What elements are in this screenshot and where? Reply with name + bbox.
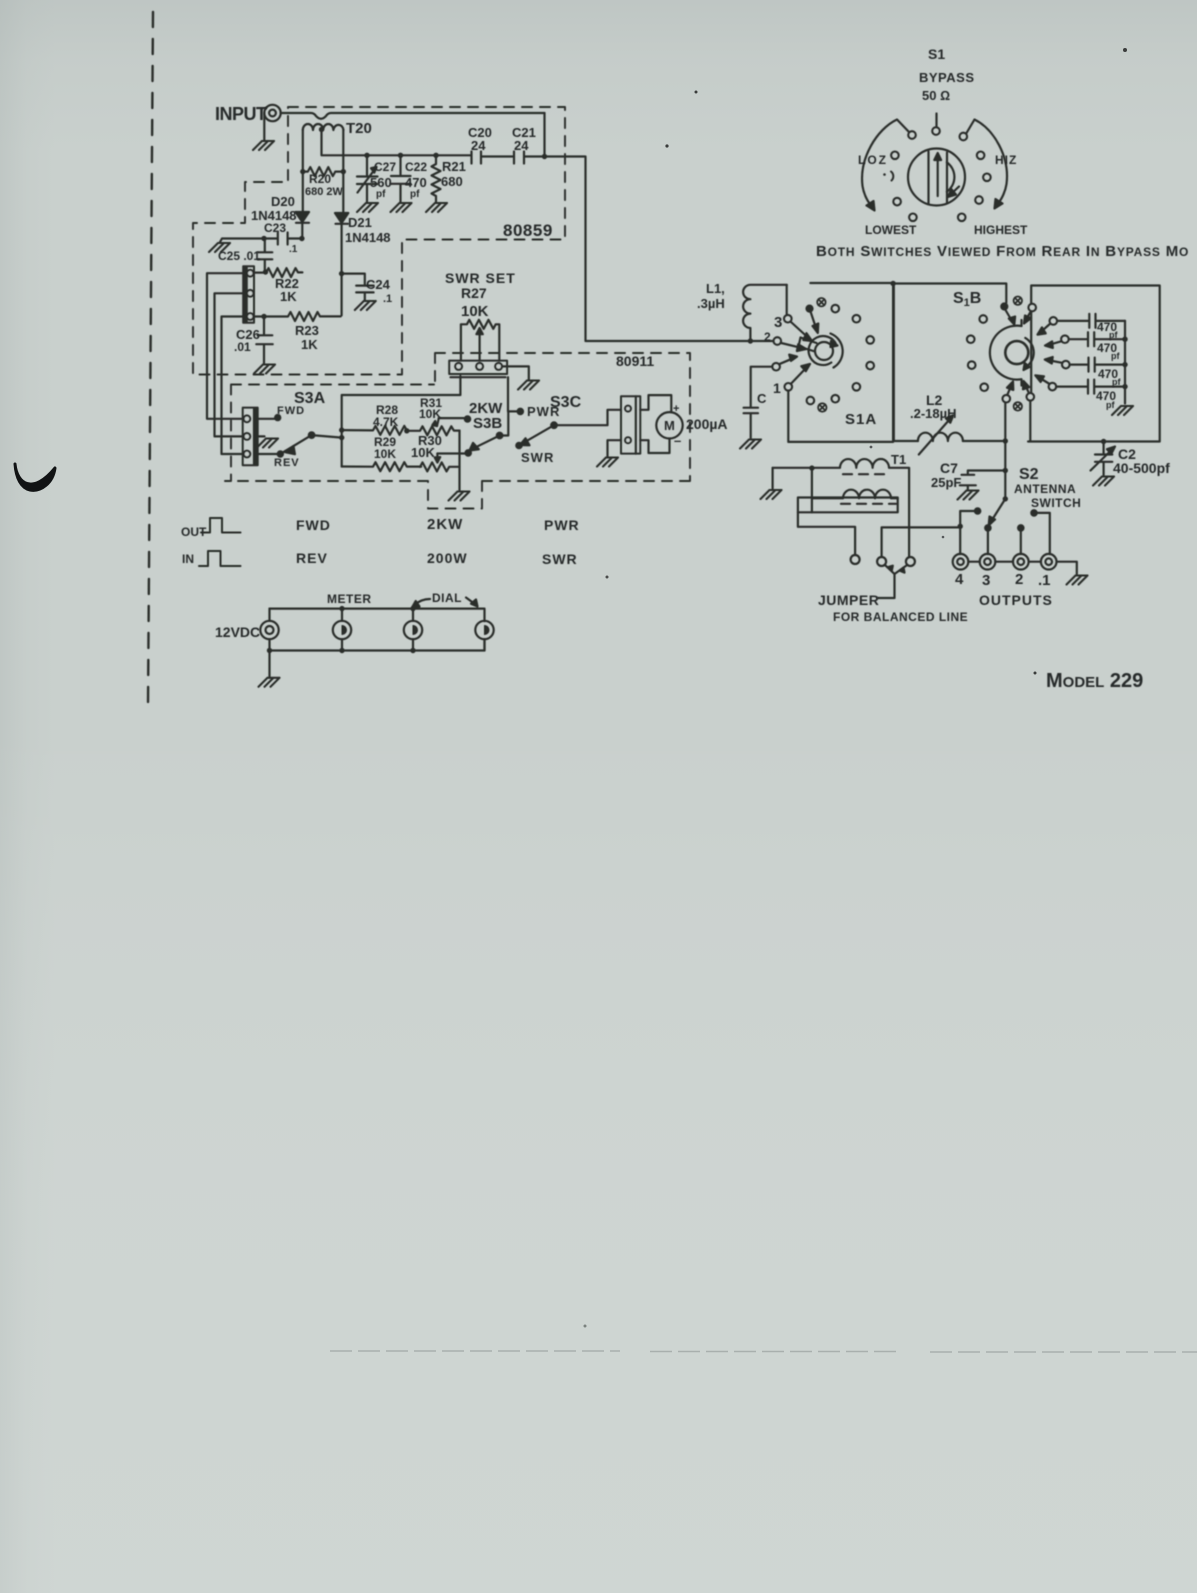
margin dashed line [148,12,153,705]
svg-text:40-500pf: 40-500pf [1113,460,1170,476]
svg-text:SWR: SWR [542,551,578,567]
svg-text:FWD: FWD [296,517,331,533]
S1 rotation arc left [862,120,908,207]
svg-text:HIGHEST: HIGHEST [974,223,1028,237]
waveform IN pulse [199,551,241,566]
DIAL pointer arrows [415,599,431,605]
S1B wiper arrows [1006,310,1012,321]
transformer T1 primary [773,459,910,557]
diode D21 [335,213,348,315]
resistor R28 [342,426,408,435]
switch S3B wiper [497,433,503,439]
svg-text:C24: C24 [366,277,391,292]
capacitor C21 [514,152,545,164]
svg-text:METER: METER [327,592,372,606]
svg-text:.3µH: .3µH [697,296,725,311]
svg-text:50 Ω: 50 Ω [922,88,950,103]
board 80859 dashed outline [193,107,565,375]
svg-text:1K: 1K [280,289,297,304]
svg-text:PWR: PWR [544,517,580,533]
capacitor C22 [391,155,411,202]
svg-text:R20: R20 [309,172,331,186]
svg-text:pf: pf [1112,377,1121,387]
node REV [258,453,281,455]
svg-text:MODEL 229: MODEL 229 [1046,670,1143,692]
svg-text:INPUT: INPUT [215,104,267,124]
box S1A [788,283,893,442]
capacitor C20 [472,152,515,164]
svg-text:+: + [673,403,679,415]
svg-text:BOTH SWITCHES VIEWED FROM REAR: BOTH SWITCHES VIEWED FROM REAR IN BYPASS… [816,243,1189,260]
capacitor C27 [357,155,378,202]
svg-text:200µA: 200µA [686,416,728,432]
meter M [656,412,682,438]
ground (input connector) [263,113,265,140]
svg-text:S1: S1 [928,46,945,62]
capacitor C23 [264,233,302,245]
wire output 1 to ground [1057,562,1077,574]
svg-text:.1: .1 [1038,572,1051,589]
potentiometer R27 [461,320,499,361]
svg-text:OUT: OUT [181,525,207,539]
connector J INPUT [264,105,280,121]
wire bracket to PWR contact [508,377,520,411]
svg-text:pf: pf [410,189,420,200]
wire T20 left winding down [302,130,304,212]
svg-text:4.7K: 4.7K [373,415,399,429]
lamp 1 METER [333,609,351,651]
svg-text:1: 1 [773,380,781,396]
svg-text:C7: C7 [940,460,958,476]
svg-text:10K: 10K [374,447,396,461]
S1A wiper wedge [799,338,817,352]
capacitor C2 [1095,442,1112,476]
12VDC bottom wire [270,639,485,650]
capacitor 470pf #2 [1069,332,1125,346]
wire R27 pin3 to ground [502,366,529,379]
S3 dashed box [231,385,434,482]
switch S3A wiper [280,435,311,454]
transformer T20 [303,124,344,130]
svg-text:80911: 80911 [616,353,654,369]
svg-text:S2: S2 [1019,466,1039,483]
resistor R30 (pot) [420,462,460,471]
svg-text:S3B: S3B [473,415,502,432]
svg-text:2KW: 2KW [427,516,463,533]
meter connector bracket [621,396,640,453]
svg-text:SWR: SWR [521,450,554,465]
svg-text:2: 2 [764,330,771,344]
resistor R29 [342,462,421,471]
svg-text:24: 24 [471,138,486,153]
wire pin1 to S3A [207,273,243,419]
resistor R20 [303,167,341,176]
svg-text:R23: R23 [295,323,319,338]
wire input to top rail [281,113,545,119]
waveform OUT pulse [201,518,241,533]
S1A rotor [809,334,843,368]
switch S3C wiper [516,443,521,448]
capacitor C26 [256,317,272,364]
resistor R31 (pot) [407,426,460,435]
wire bus left resistors [341,438,343,467]
switch S2 wiper [991,499,1005,522]
svg-text:LOZ: LOZ [858,153,888,167]
wire pin2 to S3A [215,293,244,436]
wire S3A wiper to R27 [342,376,461,438]
node FWD [258,418,278,420]
svg-text:R27: R27 [461,285,487,301]
svg-text:R21: R21 [442,159,466,174]
node 1 contact [785,383,793,391]
wire T20 right winding down [342,130,344,213]
S1B contacts [1001,304,1007,310]
S1A wiper arrows [791,322,809,338]
S1 contacts ring [908,131,916,139]
R27 connector bracket [449,361,507,378]
svg-text:25pF: 25pF [931,475,961,490]
resistor R21 [432,155,441,202]
svg-text:80859: 80859 [503,221,553,240]
wire to output 3 [987,528,989,554]
jumper V link [885,565,908,574]
svg-text:560: 560 [370,175,392,190]
capacitor C24 [342,274,374,300]
connector output 2 [1013,554,1029,570]
capacitor C7 [960,471,1006,490]
svg-text:C27: C27 [374,160,396,174]
svg-text:–: – [674,433,681,448]
svg-text:IN: IN [182,552,194,566]
svg-text:200W: 200W [427,550,468,566]
node C contact [772,363,780,371]
T1 core [843,473,891,475]
svg-text:DIAL: DIAL [432,591,462,605]
capacitor 470pf #3 [1070,358,1125,372]
svg-text:2: 2 [1015,571,1023,588]
jumper post left [851,555,860,564]
jumper post right [906,557,915,566]
node 3 contact [784,315,792,323]
lamp 3 [475,621,493,651]
svg-text:680 2W: 680 2W [305,186,344,198]
wire top rail drop [543,113,545,157]
S3A connector strip [243,408,258,466]
S1 small mark [891,172,893,181]
capacitor 470pf #1 [1057,314,1125,328]
S1A mounting marks [817,298,825,306]
svg-text:SWR SET: SWR SET [445,270,516,286]
meter M wiring - [640,439,669,454]
svg-text:OUTPUTS: OUTPUTS [979,592,1053,608]
svg-text:C25 .01: C25 .01 [218,249,260,263]
connector output 4 [953,554,969,570]
svg-text:L1,: L1, [706,281,725,296]
wire T1 link to jumper post [798,512,855,555]
svg-text:470: 470 [405,175,427,190]
ground (S3A common) [258,435,265,437]
svg-text:3: 3 [774,314,782,331]
svg-text:4: 4 [955,571,964,588]
wire middle post riser [882,527,961,557]
svg-text:pf: pf [1111,351,1120,361]
svg-text:pf: pf [1109,330,1118,340]
svg-text:24: 24 [514,138,529,153]
diode D20 [296,212,310,239]
wire S3C to meter bracket [554,410,621,425]
wire S1B to S2 [1004,403,1006,499]
svg-text:pf: pf [376,189,386,200]
svg-text:SWITCH: SWITCH [1031,496,1081,510]
S2 throw A [975,508,980,513]
wire pin3 to S3A [222,317,244,455]
wire right edge of resistor network [458,431,460,490]
output link wires [968,561,1041,563]
transformer T1 secondary [812,490,898,499]
svg-text:FWD: FWD [277,405,305,417]
wire T20 center tap to cap row [322,130,472,156]
wire C23 left to ground [220,239,264,243]
svg-text:.2-18µH: .2-18µH [910,406,957,421]
S2 throw B [1031,510,1036,515]
wire bracket to ground [608,440,622,456]
svg-text:680: 680 [441,174,463,189]
S1 top contact [932,127,940,135]
12VDC lamp rail top wire [270,609,485,622]
svg-text:REV: REV [296,550,328,566]
S1 rotation arc right [967,120,1007,205]
capacitor C (S1A) [744,367,773,438]
svg-text:BYPASS: BYPASS [919,70,975,85]
resistor R22 [254,268,302,277]
svg-text:C: C [757,391,767,406]
board 80911 dashed outline [225,353,690,509]
svg-text:FOR BALANCED LINE: FOR BALANCED LINE [833,610,968,624]
connector strip (80859 edge) [243,266,254,322]
S1 index mark [935,114,937,127]
capacitor C25 [258,239,273,270]
connector output 3 [980,554,996,570]
wire to output 4 [959,526,961,554]
svg-text:1K: 1K [301,337,318,352]
svg-text:10K: 10K [419,407,441,421]
svg-text:LOWEST: LOWEST [865,223,917,237]
T1 link winding box [798,498,898,513]
svg-text:10K: 10K [411,445,435,460]
lamp 2 DIAL [404,609,422,651]
box S1B [894,284,1007,442]
box output caps [1028,286,1160,442]
wire output 2 stub [1018,525,1023,530]
svg-text:REV: REV [274,457,300,469]
svg-text:ANTENNA: ANTENNA [1014,482,1076,496]
ground (12VDC) [268,651,270,677]
S1B rotor [990,320,1034,386]
resistor R23 [254,312,341,321]
connector 12VDC [260,609,278,651]
S1 rotor body [908,149,965,206]
wire to output section [545,157,774,342]
svg-text:1N4148: 1N4148 [345,230,391,245]
svg-text:HIZ: HIZ [995,153,1017,167]
svg-text:3: 3 [982,572,990,589]
svg-text:C22: C22 [405,160,427,174]
capacitor 470pf #4 [1056,380,1125,394]
svg-text:T1: T1 [891,452,906,467]
svg-text:10K: 10K [461,303,489,320]
inductor L2 [918,415,963,454]
svg-text:.01: .01 [234,340,251,354]
svg-text:pf: pf [1106,400,1115,410]
svg-text:12VDC: 12VDC [215,624,260,640]
svg-text:C23: C23 [264,221,286,235]
svg-text:S1A: S1A [845,411,877,428]
svg-text:T20: T20 [346,120,372,137]
S1A spare contacts [832,305,840,313]
node 2 contact [774,337,782,345]
svg-text:D20: D20 [271,194,295,209]
svg-text:.1: .1 [289,244,298,255]
svg-text:D21: D21 [348,215,372,230]
svg-text:M: M [664,418,675,433]
svg-text:S3C: S3C [550,394,582,411]
svg-text:JUMPER: JUMPER [818,592,879,608]
wire caps common to ground [1124,321,1126,404]
connector output 1 [1041,554,1057,570]
meter M wiring + [640,395,671,412]
jumper post middle [877,557,886,566]
svg-text:.1: .1 [383,293,392,305]
inductor L1 [743,285,787,341]
ground (2KW divider) [449,492,470,501]
